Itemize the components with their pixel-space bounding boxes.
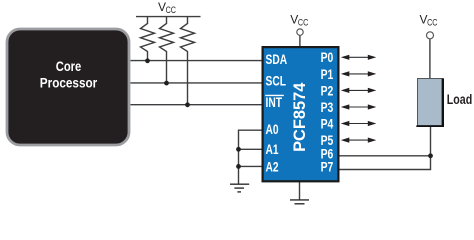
svg-text:P4: P4 (321, 116, 334, 132)
svg-text:CC: CC (298, 18, 308, 28)
svg-text:P0: P0 (321, 50, 334, 66)
svg-text:SCL: SCL (266, 73, 287, 89)
svg-text:P1: P1 (321, 66, 334, 82)
svg-text:P2: P2 (321, 83, 334, 99)
svg-text:P3: P3 (321, 99, 334, 115)
svg-text:Processor: Processor (40, 75, 97, 91)
svg-text:A2: A2 (266, 159, 279, 175)
svg-text:Core: Core (56, 59, 81, 74)
svg-text:CC: CC (166, 5, 176, 15)
svg-text:P7: P7 (321, 159, 334, 175)
svg-text:A1: A1 (266, 141, 279, 157)
svg-text:A0: A0 (266, 121, 279, 137)
svg-text:Load: Load (447, 91, 472, 107)
svg-text:PCF8574: PCF8574 (291, 82, 309, 152)
svg-text:INT: INT (266, 94, 283, 110)
svg-text:CC: CC (427, 18, 437, 28)
svg-text:SDA: SDA (266, 51, 288, 67)
